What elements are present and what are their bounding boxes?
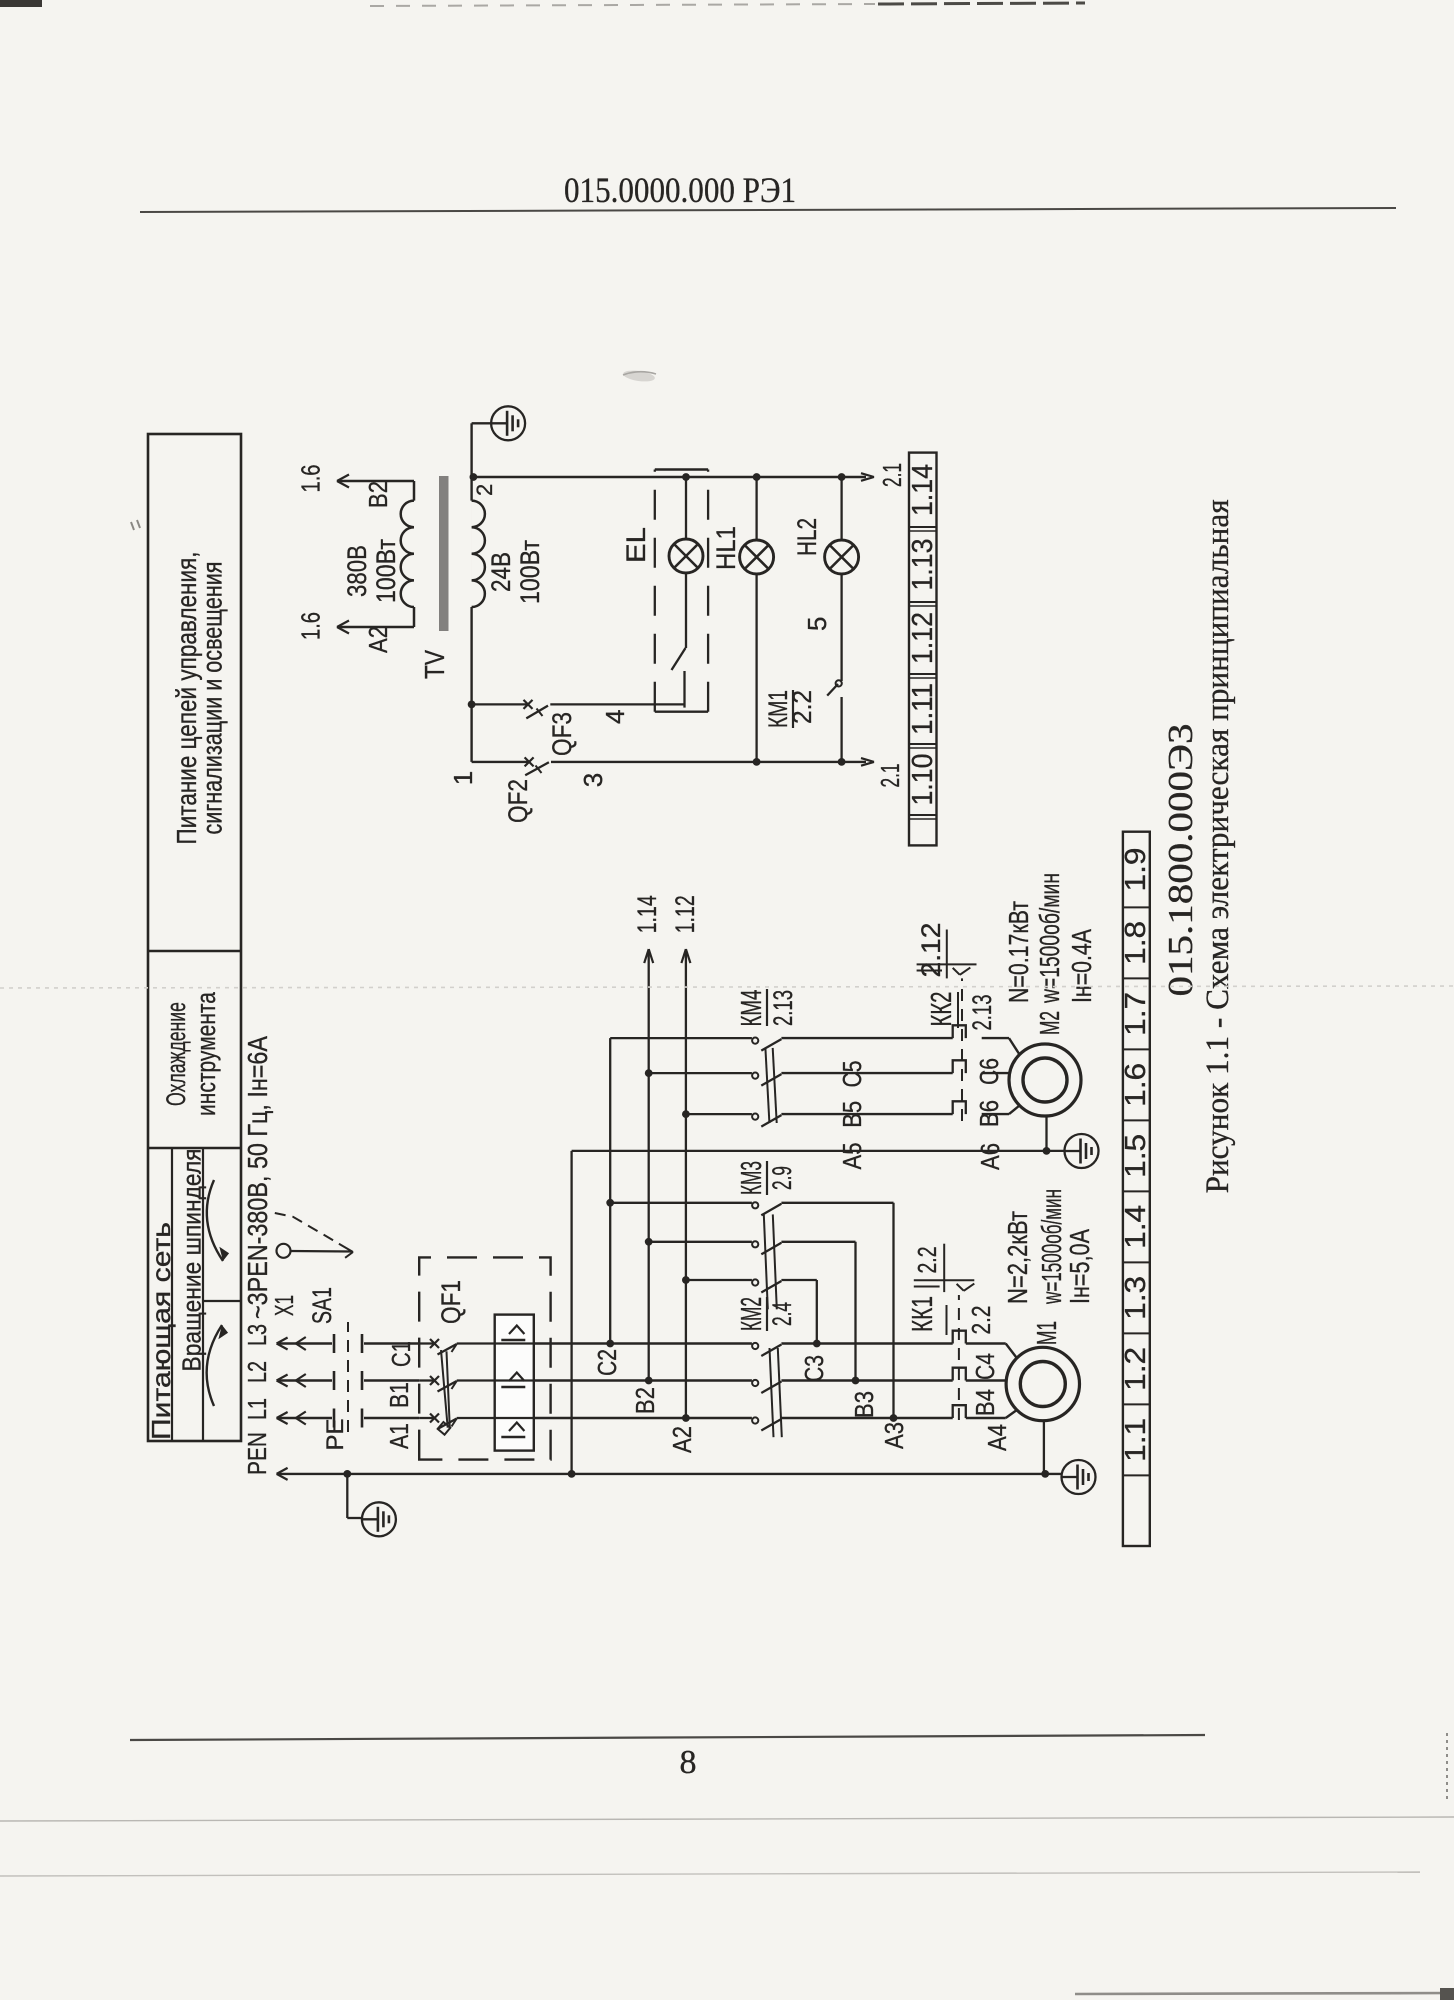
wire HL1 branch bbox=[753, 473, 761, 540]
terminal cell 1.8 bbox=[1120, 921, 1152, 965]
label A1 bbox=[384, 1423, 414, 1449]
label 2 secondary bbox=[472, 484, 497, 496]
svg-text:~3PEN-380В, 50 Гц, Iн=6А: ~3PEN-380В, 50 Гц, Iн=6А bbox=[242, 1036, 273, 1319]
svg-text:1.2: 1.2 bbox=[1120, 1347, 1152, 1391]
zone label power-lighting bbox=[171, 552, 228, 845]
svg-text:C6: C6 bbox=[974, 1058, 1004, 1085]
motor M1 bbox=[1006, 1347, 1079, 1420]
wire KM3 bot feed bbox=[682, 1276, 752, 1284]
thermal relay KK1 heater A bbox=[953, 1405, 966, 1418]
label 3 wire bbox=[578, 773, 608, 787]
svg-text:1: 1 bbox=[448, 771, 478, 785]
contactor KM3 contact mid bbox=[752, 1241, 781, 1254]
svg-text:QF1: QF1 bbox=[436, 1280, 466, 1324]
label 2.1 bottom rail bbox=[875, 764, 905, 788]
svg-text:2.2: 2.2 bbox=[966, 1306, 996, 1335]
artifact top black mark bbox=[0, 0, 42, 7]
svg-text:1.4: 1.4 bbox=[1120, 1205, 1152, 1249]
label TV bbox=[419, 650, 450, 679]
breaker QF2 contact bbox=[525, 757, 549, 775]
wire riser B (v648) bbox=[645, 1073, 752, 1384]
QF1 linkage bar bbox=[438, 1350, 451, 1435]
label TV secondary rating bbox=[486, 540, 545, 604]
label A2 tv bbox=[363, 626, 393, 653]
wire supply L2 upper bbox=[277, 1375, 332, 1387]
svg-text:B3: B3 bbox=[849, 1391, 879, 1418]
label B2 bbox=[630, 1387, 660, 1414]
label M2 bbox=[1034, 1011, 1065, 1035]
zone label supply net bbox=[146, 1222, 176, 1440]
label M1 bbox=[1031, 1321, 1062, 1345]
terminal strip XT 1.10-1.14 frame bbox=[909, 453, 937, 846]
contact KM1 bbox=[827, 680, 842, 695]
svg-text:1.14: 1.14 bbox=[907, 464, 939, 516]
label QF1 bbox=[436, 1280, 466, 1324]
label HL2 bbox=[792, 518, 822, 556]
transformer TV primary winding bbox=[401, 481, 414, 627]
wire EL lamp to switch bbox=[685, 573, 687, 648]
svg-text:2.13: 2.13 bbox=[967, 995, 997, 1031]
svg-text:EL: EL bbox=[621, 527, 651, 563]
wire TV primary bottom lead bbox=[337, 621, 414, 634]
QF1 pole C contact bbox=[419, 1339, 495, 1355]
svg-text:1.8: 1.8 bbox=[1120, 921, 1152, 965]
label PE bbox=[322, 1418, 349, 1450]
wire QF3 branch bbox=[468, 701, 685, 709]
wire C4 to M1 bbox=[966, 1344, 1017, 1359]
svg-text:1.5: 1.5 bbox=[1120, 1134, 1152, 1178]
svg-text:2: 2 bbox=[472, 484, 497, 496]
ground symbol M2 bbox=[1065, 1134, 1099, 1168]
wire C5 segment bbox=[781, 1037, 952, 1039]
wire riser C-KM4 (v610) bbox=[606, 1038, 752, 1347]
transformer TV secondary winding bbox=[472, 501, 485, 607]
svg-text:B4: B4 bbox=[970, 1389, 1000, 1416]
svg-text:B2: B2 bbox=[630, 1387, 660, 1414]
wire ground bus link to PEN bbox=[568, 1151, 576, 1478]
wire supply L3 upper bbox=[277, 1338, 332, 1350]
wire phase B to KM2 bbox=[534, 1379, 752, 1381]
thermal relay KK1 heater C bbox=[953, 1331, 966, 1344]
svg-text:2.4: 2.4 bbox=[767, 1302, 797, 1326]
wire M2 ground bbox=[1043, 1116, 1051, 1155]
svg-text:A2: A2 bbox=[667, 1426, 697, 1453]
svg-text:QF2: QF2 bbox=[503, 779, 533, 823]
artifact grey line mid bbox=[0, 986, 1454, 988]
zone label spindle rotation bbox=[177, 1149, 207, 1372]
label B1 bbox=[384, 1382, 414, 1408]
svg-text:L3: L3 bbox=[242, 1324, 272, 1346]
wire C3 segment bbox=[781, 1340, 952, 1348]
label C4 bbox=[970, 1353, 1000, 1380]
label QF3 bbox=[547, 712, 577, 756]
connector X1 pin arrow on L3 bbox=[296, 1337, 306, 1350]
svg-text:B1: B1 bbox=[384, 1382, 414, 1408]
label M2 specs bbox=[1003, 873, 1097, 1004]
svg-text:A5: A5 bbox=[837, 1143, 867, 1170]
svg-text:КК2: КК2 bbox=[926, 992, 958, 1027]
KM2 linkage bbox=[770, 1348, 782, 1437]
terminal cell 1.10 bbox=[907, 754, 939, 806]
svg-text:Iн=0.4А: Iн=0.4А bbox=[1066, 929, 1097, 1003]
wire phase A to KM2 bbox=[534, 1417, 752, 1419]
svg-text:5: 5 bbox=[802, 617, 832, 631]
svg-text:015.1800.000Э3: 015.1800.000Э3 bbox=[1161, 724, 1200, 997]
KM4 linkage bbox=[765, 1048, 776, 1123]
contactor KM4 contact bot bbox=[752, 1114, 781, 1127]
svg-text:N=0.17кВт: N=0.17кВт bbox=[1003, 901, 1034, 1003]
wire A4 to M1 bbox=[966, 1410, 1017, 1418]
wire QF1 pole B through releases bbox=[495, 1379, 534, 1381]
wire TV secondary line bbox=[470, 477, 472, 762]
label B6 bbox=[974, 1100, 1004, 1127]
svg-text:015.0000.000 РЭ1: 015.0000.000 РЭ1 bbox=[564, 170, 796, 210]
label KK1 ref 2.2 bbox=[912, 1244, 944, 1292]
wire KM3 top out to A bbox=[781, 1203, 893, 1418]
rotation arc right bbox=[207, 1180, 230, 1262]
svg-text:1.13: 1.13 bbox=[907, 539, 939, 591]
label 1.12 dest bbox=[670, 895, 700, 933]
terminal cell 1.2 bbox=[1120, 1347, 1152, 1391]
svg-text:A4: A4 bbox=[982, 1424, 1012, 1451]
svg-text:Рисунок 1.1 - Схема электричес: Рисунок 1.1 - Схема электрическая принци… bbox=[1200, 499, 1236, 1193]
svg-text:w=1500об/мин: w=1500об/мин bbox=[1036, 1189, 1067, 1305]
svg-text:М1: М1 bbox=[1031, 1321, 1062, 1345]
wire HL2 branch bbox=[838, 473, 846, 540]
page number 8 bbox=[680, 1744, 697, 1781]
wire supply L1 upper bbox=[277, 1412, 332, 1424]
artifact bottom right bar bbox=[1075, 1988, 1454, 2000]
svg-text:1.6: 1.6 bbox=[296, 465, 326, 493]
label SA1 bbox=[307, 1287, 337, 1324]
svg-text:3: 3 bbox=[578, 773, 608, 787]
label B4 bbox=[970, 1389, 1000, 1416]
label B5 bbox=[837, 1101, 867, 1128]
terminal strip1 dividers bbox=[909, 527, 937, 819]
ground symbol TV bbox=[491, 406, 525, 440]
lamp EL bbox=[669, 539, 703, 573]
svg-text:2.2: 2.2 bbox=[787, 690, 817, 724]
caption drawing number bbox=[1161, 724, 1200, 997]
wire KM1 to rail bbox=[838, 697, 846, 766]
lamp HL1 bbox=[740, 540, 774, 574]
svg-text:A2: A2 bbox=[363, 626, 393, 653]
thermal relay KK2 heater B bbox=[953, 1060, 966, 1073]
svg-text:TV: TV bbox=[419, 650, 450, 679]
terminal cell 1.7 bbox=[1120, 992, 1152, 1036]
contactor KM2 contact A bbox=[752, 1417, 781, 1430]
artifact grey line low1 bbox=[0, 1817, 1454, 1821]
svg-text:w=1500об/мин: w=1500об/мин bbox=[1034, 873, 1065, 1004]
label 2.1 top rail bbox=[877, 463, 907, 487]
label KM4 bbox=[736, 989, 798, 1027]
wire to terminal 1.12 bbox=[681, 949, 690, 1118]
label X1 bbox=[269, 1295, 299, 1316]
wire QF1 pole A through releases bbox=[495, 1417, 534, 1419]
svg-text:2.2: 2.2 bbox=[912, 1247, 942, 1274]
label L2 bbox=[242, 1361, 272, 1383]
label KK1 bbox=[907, 1296, 996, 1335]
terminal cell 1.5 bbox=[1120, 1134, 1152, 1178]
svg-text:HL2: HL2 bbox=[792, 518, 822, 556]
svg-text:A6: A6 bbox=[975, 1143, 1005, 1170]
transformer TV core bbox=[439, 476, 449, 631]
thermal relay KK2 heater C bbox=[953, 1025, 966, 1038]
svg-text:1.1: 1.1 bbox=[1120, 1418, 1152, 1462]
KK2 reference mark bbox=[917, 964, 977, 974]
label HL1 bbox=[711, 526, 741, 570]
luminaire EL enclosure box bbox=[655, 470, 708, 712]
svg-text:Охлаждение: Охлаждение bbox=[161, 1002, 191, 1106]
svg-text:Питающая сеть: Питающая сеть bbox=[146, 1222, 176, 1440]
svg-text:N=2,2кВт: N=2,2кВт bbox=[1002, 1211, 1033, 1304]
label A3 bbox=[879, 1422, 909, 1449]
label B3 bbox=[849, 1391, 879, 1418]
svg-text:1.9: 1.9 bbox=[1120, 848, 1152, 892]
artifact blob above TV bbox=[622, 369, 656, 383]
wire HL2 to KM1 bbox=[840, 574, 842, 681]
svg-text:B5: B5 bbox=[837, 1101, 867, 1128]
label C2 bbox=[592, 1349, 622, 1376]
wire riser A (v686) bbox=[682, 1114, 752, 1422]
label 5 wire bbox=[802, 617, 832, 631]
svg-text:8: 8 bbox=[680, 1744, 697, 1781]
svg-text:4: 4 bbox=[600, 710, 630, 724]
wire PE branch bbox=[343, 1470, 361, 1518]
label KK2 bbox=[926, 992, 997, 1031]
thermal relay KK1 heater B bbox=[953, 1368, 966, 1381]
svg-text:2.1: 2.1 bbox=[875, 764, 905, 788]
label KM2 bbox=[736, 1297, 797, 1331]
label PEN bbox=[242, 1432, 272, 1475]
contactor KM2 contact C bbox=[752, 1343, 781, 1356]
svg-text:QF3: QF3 bbox=[547, 712, 577, 756]
contactor KM4 contact mid bbox=[752, 1073, 781, 1086]
KK1 linkage dashed bbox=[958, 1295, 960, 1420]
svg-text:КМ4: КМ4 bbox=[736, 990, 768, 1027]
svg-text:2.13: 2.13 bbox=[768, 990, 798, 1026]
svg-text:М2: М2 bbox=[1034, 1011, 1065, 1035]
QF1 thermal release box bbox=[495, 1315, 534, 1451]
svg-text:24В: 24В bbox=[486, 552, 516, 592]
ground symbol M1-PEN bbox=[1062, 1460, 1096, 1494]
label 1.14 dest bbox=[632, 895, 662, 933]
label A2 bbox=[667, 1426, 697, 1453]
label supply ~3PEN-380V bbox=[242, 1036, 273, 1319]
breaker QF1 dashed box bbox=[419, 1257, 550, 1459]
connector X1 pin arrow on L1 bbox=[296, 1412, 306, 1425]
svg-text:PE: PE bbox=[322, 1418, 349, 1450]
wire B5 segment bbox=[781, 1072, 952, 1074]
svg-text:Iн=5,0А: Iн=5,0А bbox=[1064, 1229, 1095, 1304]
wire A5 segment bbox=[781, 1113, 952, 1115]
svg-text:HL1: HL1 bbox=[711, 526, 741, 570]
QF1 pole B contact bbox=[419, 1376, 495, 1392]
svg-text:X1: X1 bbox=[269, 1295, 299, 1316]
wire EL switch stub bbox=[683, 671, 685, 708]
wire HL1 lower bbox=[753, 574, 761, 766]
QF1 pole A contact bbox=[419, 1414, 495, 1430]
label C1 bbox=[386, 1341, 416, 1367]
label C3 bbox=[799, 1355, 829, 1382]
svg-text:1.10: 1.10 bbox=[907, 754, 939, 806]
svg-text:инструмента: инструмента bbox=[191, 991, 221, 1116]
wire KM3 top feed bbox=[606, 1199, 752, 1207]
svg-text:380В: 380В bbox=[342, 545, 372, 597]
artifact top dotted line bbox=[370, 3, 1085, 6]
terminal cell 1.4 bbox=[1120, 1205, 1152, 1249]
svg-text:1.6: 1.6 bbox=[296, 612, 326, 640]
contactor KM2 contact B bbox=[752, 1380, 781, 1393]
KK2 linkage dashed bbox=[961, 978, 963, 1121]
KM3 linkage bbox=[764, 1214, 777, 1309]
svg-text:A1: A1 bbox=[384, 1423, 414, 1449]
svg-text:C4: C4 bbox=[970, 1353, 1000, 1380]
artifact grey line low2 bbox=[0, 1872, 1420, 1876]
label 1.6 top bbox=[296, 465, 326, 493]
svg-text:1.12: 1.12 bbox=[907, 612, 939, 664]
terminal cell 1.6 bbox=[1120, 1063, 1152, 1107]
contactor KM3 contact top bbox=[752, 1202, 781, 1215]
SA1 linkage dashed bbox=[347, 1322, 349, 1432]
connector X1 pin arrow on L2 bbox=[296, 1374, 306, 1387]
wire KM3 mid out to B bbox=[781, 1242, 855, 1381]
wire control rail live bbox=[472, 473, 874, 481]
wire B3 segment bbox=[781, 1377, 952, 1385]
label 4 wire bbox=[600, 710, 630, 724]
terminal cell 1.1 bbox=[1120, 1418, 1152, 1462]
svg-text:L1: L1 bbox=[242, 1398, 272, 1420]
svg-text:SA1: SA1 bbox=[307, 1287, 337, 1324]
svg-text:PEN: PEN bbox=[242, 1432, 272, 1475]
wire phase C to KM2 bbox=[534, 1342, 752, 1344]
wire TV primary top lead bbox=[337, 475, 414, 488]
terminal cell 1.3 bbox=[1120, 1276, 1152, 1320]
label C5 bbox=[837, 1061, 867, 1088]
ground symbol PE bbox=[362, 1502, 396, 1536]
caption figure title bbox=[1200, 499, 1236, 1193]
QF1 release symbol I> at 660 bbox=[501, 1326, 525, 1341]
svg-text:100Вт: 100Вт bbox=[515, 540, 545, 604]
wire A3 segment bbox=[781, 1414, 952, 1422]
label KM3 bbox=[736, 1161, 797, 1195]
header document number bbox=[564, 170, 796, 210]
svg-text:C2: C2 bbox=[592, 1349, 622, 1376]
label A6 bbox=[975, 1143, 1005, 1170]
svg-text:2.12: 2.12 bbox=[916, 923, 946, 978]
svg-text:Вращение шпинделя: Вращение шпинделя bbox=[177, 1149, 207, 1372]
svg-text:2.1: 2.1 bbox=[877, 463, 907, 487]
label M1 specs bbox=[1002, 1189, 1095, 1305]
label L1 bbox=[242, 1398, 272, 1420]
terminal cell 1.12 bbox=[907, 612, 939, 664]
wire control rail return bbox=[472, 758, 874, 766]
zone label cooling bbox=[161, 991, 221, 1116]
switch SA1 pole L1 bbox=[334, 1409, 419, 1428]
label KM1 bbox=[763, 690, 817, 728]
svg-text:C5: C5 bbox=[837, 1061, 867, 1088]
artifact speck quotes bbox=[131, 520, 140, 530]
wire to ground G1 bbox=[472, 423, 491, 477]
label EL bbox=[621, 527, 651, 563]
switch EL blade bbox=[672, 648, 686, 670]
terminal cell 1.9 bbox=[1120, 848, 1152, 892]
label KK2 ref 2.12 bbox=[916, 923, 947, 979]
QF1 release symbol I> at 563 bbox=[501, 1423, 525, 1438]
KK1 reference mark bbox=[914, 1280, 975, 1291]
QF1 release symbol I> at 613 bbox=[501, 1373, 525, 1388]
contactor KM4 contact top bbox=[752, 1038, 781, 1051]
svg-text:100Вт: 100Вт bbox=[371, 539, 401, 603]
wire M1 ground bbox=[1041, 1421, 1049, 1478]
label C6 bbox=[974, 1058, 1004, 1085]
wire A6 to M2 bbox=[982, 1106, 1020, 1115]
svg-text:1.6: 1.6 bbox=[1120, 1063, 1152, 1107]
svg-text:B6: B6 bbox=[974, 1100, 1004, 1127]
lamp HL2 bbox=[825, 540, 859, 574]
motor M2 bbox=[1009, 1044, 1081, 1116]
svg-text:1.7: 1.7 bbox=[1120, 992, 1152, 1036]
svg-text:КК1: КК1 bbox=[907, 1296, 939, 1332]
label TV primary rating bbox=[342, 539, 401, 603]
wire ground bus M2 bbox=[572, 1150, 1065, 1152]
svg-text:B2: B2 bbox=[363, 481, 393, 508]
wire C6 to M2 bbox=[982, 1038, 1020, 1054]
label QF2 bbox=[503, 779, 533, 823]
label 1.6 bottom bbox=[296, 612, 326, 640]
switch SA1 pole L3 bbox=[334, 1334, 419, 1353]
svg-text:2.9: 2.9 bbox=[767, 1166, 797, 1190]
wire B6 to M2 bbox=[982, 1072, 1010, 1074]
wire KM3 mid feed bbox=[645, 1238, 752, 1246]
node rail top joint bbox=[470, 473, 478, 481]
svg-text:L2: L2 bbox=[242, 1361, 272, 1383]
svg-text:C3: C3 bbox=[799, 1355, 829, 1382]
svg-text:A3: A3 bbox=[879, 1422, 909, 1449]
breaker QF3 contact bbox=[524, 700, 549, 719]
wire QF1 pole C through releases bbox=[495, 1342, 534, 1344]
label L3 bbox=[242, 1324, 272, 1346]
svg-text:1.12: 1.12 bbox=[670, 895, 700, 933]
supply leader dashed bbox=[275, 1213, 353, 1258]
svg-text:1.11: 1.11 bbox=[907, 683, 939, 735]
svg-text:КМ3: КМ3 bbox=[736, 1161, 768, 1195]
wire B4 to M1 bbox=[966, 1379, 1007, 1381]
SA1 handle circle bbox=[277, 1244, 353, 1258]
switch SA1 pole L2 bbox=[334, 1371, 419, 1390]
terminal strip2 dividers bbox=[1123, 907, 1150, 1475]
label A5 bbox=[837, 1143, 867, 1170]
thermal relay KK2 heater A bbox=[953, 1101, 966, 1114]
footer rule bbox=[130, 1735, 1205, 1740]
label B2 tv bbox=[363, 481, 393, 508]
svg-text:1.3: 1.3 bbox=[1120, 1276, 1152, 1320]
svg-text:C1: C1 bbox=[386, 1341, 416, 1367]
terminal cell 1.13 bbox=[907, 539, 939, 591]
terminal cell 1.11 bbox=[907, 683, 939, 735]
label 1 wire bbox=[448, 771, 478, 785]
wire KM3 bot out to C bbox=[781, 1280, 816, 1344]
function zone table frame bbox=[148, 434, 241, 1441]
contactor KM3 contact bot bbox=[752, 1279, 781, 1292]
rotation arc left bbox=[207, 1324, 229, 1406]
wire EL branch upper bbox=[682, 473, 690, 539]
terminal strip XT 1.1-1.9 frame bbox=[1123, 832, 1150, 1546]
svg-text:сигнализации и освещения: сигнализации и освещения bbox=[197, 562, 228, 835]
terminal cell 1.14 bbox=[907, 464, 939, 516]
svg-text:1.14: 1.14 bbox=[632, 895, 662, 933]
wire supply PEN bbox=[277, 1468, 1061, 1480]
